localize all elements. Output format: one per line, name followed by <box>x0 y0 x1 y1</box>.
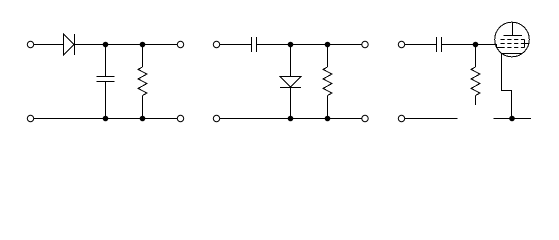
wire bottom-left circuit3 <box>405 118 458 120</box>
diode D2 (shunt) <box>280 45 301 119</box>
terminal output top-right circuit1 <box>177 41 183 47</box>
node D2bot junction <box>288 116 294 122</box>
wire ground segment right <box>494 118 532 120</box>
wire capacitor C3 to node A3 <box>442 44 476 46</box>
wire node B1 to output top-right <box>143 44 178 46</box>
wire diode D1 to node A1 <box>75 44 106 46</box>
terminal input top-left circuit3 <box>398 41 404 47</box>
node A3 junction <box>473 42 479 48</box>
wire top-left to diode D1 <box>34 44 64 46</box>
node A2 junction <box>288 42 294 48</box>
resistor R2 (shunt) <box>323 45 332 119</box>
terminal input top-left circuit2 <box>213 41 219 47</box>
node R2bot junction <box>325 116 331 122</box>
node C1bot junction <box>103 116 109 122</box>
tube V1 plate <box>504 22 523 35</box>
capacitor C2 (series) <box>252 37 257 52</box>
tube V1 grid right connector <box>524 40 526 48</box>
resistor R1 (shunt) <box>138 45 147 119</box>
capacitor C3 (series grid capacitor) <box>437 37 442 52</box>
wire node B2 to output top-right <box>328 44 362 46</box>
tube V1 grid row 3 (dashed) <box>501 47 525 49</box>
wire node A3 to tube grid <box>476 45 501 48</box>
terminal input bottom-left circuit2 <box>213 115 219 121</box>
wire cathode lead down <box>502 54 512 119</box>
capacitor C1 (shunt) <box>97 45 115 119</box>
tube V1 grid row 1 (dashed) <box>501 39 525 41</box>
tube V1 screen grid lead to envelope <box>525 43 530 45</box>
wire capacitor C2 to node A2 <box>257 44 291 46</box>
wire bottom rail circuit2 <box>220 118 362 120</box>
terminal output top-right circuit2 <box>362 41 368 47</box>
wire node A1 to node B1 <box>106 44 143 46</box>
tube V1 cathode <box>502 53 523 55</box>
resistor R3 (grid leak) <box>471 45 480 106</box>
diode D1 (series) <box>64 34 75 55</box>
tube V1 grid row 2 (dashed) <box>501 43 525 45</box>
node R1bot junction <box>140 116 146 122</box>
terminal input bottom-left circuit1 <box>27 115 33 121</box>
vacuum tube V1 envelope <box>495 22 530 57</box>
wire bottom rail circuit1 <box>34 118 178 120</box>
terminal output bottom-right circuit1 <box>177 115 183 121</box>
terminal input bottom-left circuit3 <box>398 115 404 121</box>
wire top-left to capacitor C3 <box>405 44 437 46</box>
node cathode-ground junction <box>509 116 515 122</box>
node B2 junction <box>325 42 331 48</box>
terminal input top-left circuit1 <box>27 41 33 47</box>
node A1 junction <box>103 42 109 48</box>
wire top-left to capacitor C2 <box>220 44 252 46</box>
terminal output bottom-right circuit2 <box>362 115 368 121</box>
node B1 junction <box>140 42 146 48</box>
wire node A2 to node B2 <box>291 44 328 46</box>
